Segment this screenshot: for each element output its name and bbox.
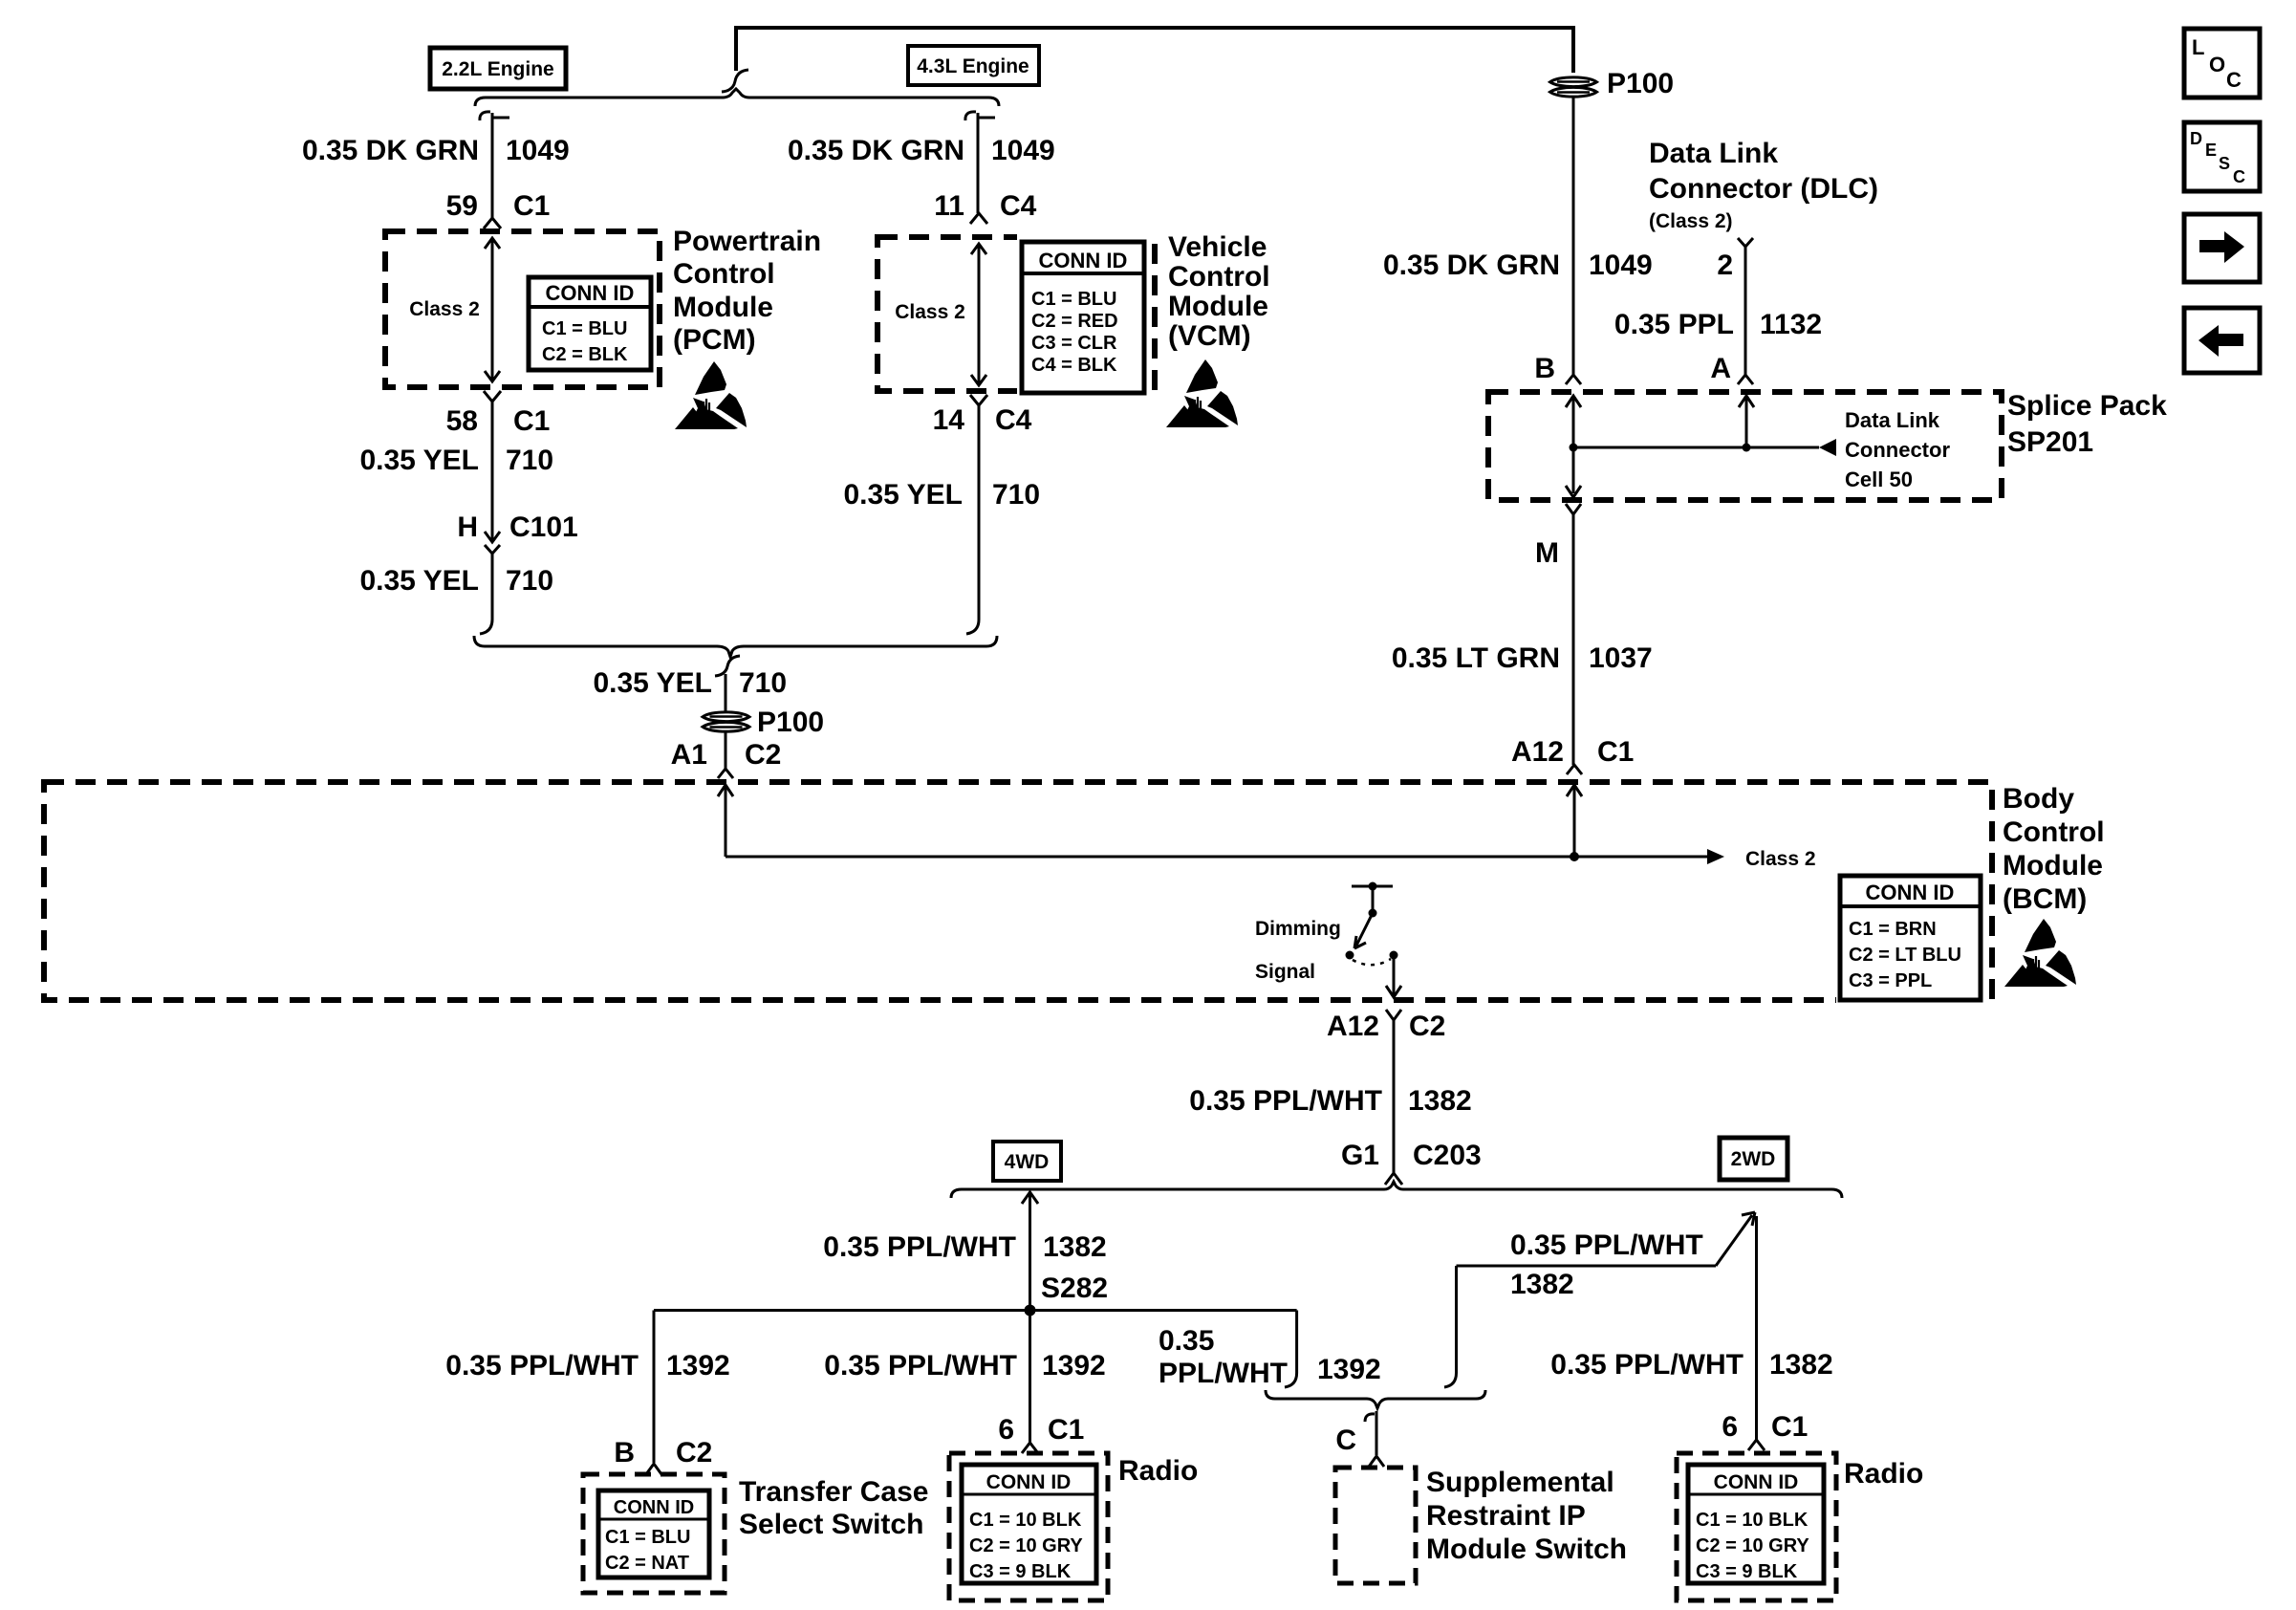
wire: splice horizontal bar <box>1573 446 1819 449</box>
svg-text:Control: Control <box>1168 261 1270 293</box>
svg-text:0.35 PPL/WHT: 0.35 PPL/WHT <box>445 1350 639 1382</box>
svg-text:710: 710 <box>506 445 553 476</box>
connector Y M below splice <box>1566 504 1581 524</box>
connector chevron G1/C203 <box>1385 1167 1402 1185</box>
svg-text:Restraint IP: Restraint IP <box>1426 1500 1586 1532</box>
connector Y A12/C2 below BCM <box>1386 1010 1401 1030</box>
wire: 2WD branch diagonal arrow <box>1457 1212 1756 1266</box>
wire: center branch down to radio 1 <box>1029 1311 1031 1444</box>
svg-text:1392: 1392 <box>1317 1354 1381 1385</box>
svg-text:C2 = LT BLU: C2 = LT BLU <box>1849 945 1961 966</box>
connector chevron 11/C4 <box>970 213 987 224</box>
svg-text:S: S <box>2219 154 2230 173</box>
svg-text:Cell 50: Cell 50 <box>1845 468 1913 491</box>
connector chevron A1/C2 <box>718 769 733 778</box>
connector chevron 6/C1 radio 1 <box>1022 1443 1038 1453</box>
wire: tilde below gathering brace <box>715 656 740 676</box>
wire: 4.3L branch top hook <box>965 112 995 213</box>
wire: left branch down to transfer case <box>653 1311 656 1464</box>
svg-text:Body: Body <box>2003 783 2074 815</box>
svg-text:CONN ID: CONN ID <box>1039 249 1128 272</box>
wire: 4.3L lead end curl <box>966 620 979 634</box>
connector chevron 59/C1 <box>484 218 501 228</box>
svg-text:0.35: 0.35 <box>1159 1325 1214 1357</box>
wire below P100 left <box>725 732 727 769</box>
svg-text:Splice Pack: Splice Pack <box>2007 390 2167 422</box>
wire: class 2 double-arrow inside VCM box <box>971 244 986 385</box>
svg-text:C101: C101 <box>509 511 578 543</box>
svg-text:2WD: 2WD <box>1731 1148 1776 1170</box>
svg-text:0.35 PPL/WHT: 0.35 PPL/WHT <box>1189 1085 1382 1117</box>
wire: splice A arrow up <box>1739 396 1754 447</box>
svg-text:1382: 1382 <box>1510 1269 1574 1300</box>
Radio 2 dashed box <box>1677 1453 1836 1600</box>
svg-text:4WD: 4WD <box>1005 1151 1050 1173</box>
wire: 2.2L lead end curl <box>480 620 492 634</box>
4.3L Engine box <box>908 46 1039 85</box>
svg-text:Module: Module <box>1168 291 1268 322</box>
wire: dimming output arrow through BCM bottom <box>1386 959 1401 997</box>
svg-text:1132: 1132 <box>1760 309 1822 340</box>
CONN ID box PCM <box>529 277 651 370</box>
svg-text:1049: 1049 <box>991 135 1055 166</box>
svg-text:D: D <box>2190 129 2202 148</box>
svg-text:2.2L Engine: 2.2L Engine <box>442 58 553 80</box>
svg-text:0.35 PPL/WHT: 0.35 PPL/WHT <box>1510 1229 1703 1261</box>
svg-text:Supplemental: Supplemental <box>1426 1467 1614 1498</box>
svg-text:Data Link: Data Link <box>1649 138 1778 169</box>
wire: A12/C2 down to G1 <box>1393 1030 1396 1167</box>
4WD box <box>993 1142 1061 1181</box>
arrow reference Data Link Connector Cell 50 <box>1819 439 1836 456</box>
connector chevron A12/C1 <box>1567 765 1582 774</box>
CONN ID box radio 1 <box>962 1465 1096 1583</box>
connector chevron B <box>1566 375 1581 384</box>
svg-text:H: H <box>457 511 478 543</box>
wire: lead down to P100 left <box>725 674 727 712</box>
ESD symbol PCM <box>675 361 747 429</box>
svg-text:1049: 1049 <box>506 135 570 166</box>
svg-text:C2 = RED: C2 = RED <box>1031 311 1118 332</box>
svg-text:C2 = NAT: C2 = NAT <box>605 1553 689 1574</box>
wire: top bus from engine brace to P100 right <box>736 26 1573 73</box>
svg-text:Class 2: Class 2 <box>409 298 480 320</box>
svg-text:C3 = PPL: C3 = PPL <box>1849 970 1932 991</box>
svg-text:Select Switch: Select Switch <box>739 1509 923 1540</box>
svg-text:A12: A12 <box>1511 736 1564 768</box>
svg-text:B: B <box>614 1437 635 1469</box>
svg-text:710: 710 <box>506 565 553 597</box>
wire: right branch down with end curl <box>1285 1311 1297 1388</box>
svg-text:4.3L Engine: 4.3L Engine <box>917 55 1029 77</box>
svg-text:0.35 PPL/WHT: 0.35 PPL/WHT <box>823 1231 1016 1263</box>
svg-text:C1 = 10 BLK: C1 = 10 BLK <box>969 1510 1082 1531</box>
svg-text:E: E <box>2205 141 2217 160</box>
CONN ID box BCM <box>1836 872 1984 1006</box>
connector P100 left symbol <box>703 712 749 731</box>
svg-text:C2 = BLK: C2 = BLK <box>542 344 628 365</box>
svg-text:0.35 DK GRN: 0.35 DK GRN <box>788 135 964 166</box>
2.2L Engine box <box>430 48 566 89</box>
svg-text:Control: Control <box>673 258 775 290</box>
right arrow box <box>2184 214 2260 282</box>
svg-text:Class 2: Class 2 <box>895 301 965 323</box>
arrow Class 2 (right) <box>1707 849 1724 864</box>
CONN ID box VCM <box>1017 231 1150 400</box>
svg-text:11: 11 <box>934 190 964 222</box>
connector chevron 6/C1 radio 2 <box>1748 1440 1765 1450</box>
svg-text:Radio: Radio <box>1844 1458 1923 1490</box>
CONN ID box transfer case <box>598 1490 709 1577</box>
connector C lead (supplemental) <box>1365 1411 1384 1467</box>
svg-text:A12: A12 <box>1327 1011 1379 1042</box>
svg-text:1382: 1382 <box>1769 1349 1833 1381</box>
svg-text:C1: C1 <box>513 405 550 437</box>
junction dot splice right <box>1743 444 1751 452</box>
svg-text:C1 = 10 BLK: C1 = 10 BLK <box>1696 1510 1809 1531</box>
svg-text:C1: C1 <box>1597 736 1634 768</box>
svg-text:C3 = 9 BLK: C3 = 9 BLK <box>1696 1561 1798 1582</box>
svg-text:58: 58 <box>446 405 478 437</box>
svg-text:S282: S282 <box>1041 1273 1108 1304</box>
svg-text:CONN ID: CONN ID <box>546 281 635 305</box>
wire: VCM down lead <box>978 415 981 620</box>
svg-text:Transfer Case: Transfer Case <box>739 1476 928 1508</box>
VCM class 2 dashed box <box>877 237 1155 391</box>
wire: gathering brace below engine leads <box>474 636 997 657</box>
left arrow box <box>2184 308 2260 373</box>
svg-text:M: M <box>1535 537 1559 569</box>
svg-text:(VCM): (VCM) <box>1168 320 1251 352</box>
connector chevron B/C2 <box>646 1464 661 1474</box>
DESC box <box>2184 122 2260 191</box>
connector chevron A <box>1738 375 1753 384</box>
svg-text:0.35 DK GRN: 0.35 DK GRN <box>1383 250 1560 281</box>
svg-text:Signal: Signal <box>1255 961 1315 983</box>
svg-text:1382: 1382 <box>1408 1085 1472 1117</box>
svg-text:Radio: Radio <box>1118 1455 1198 1487</box>
svg-text:P100: P100 <box>757 707 824 738</box>
svg-text:2: 2 <box>1717 250 1733 281</box>
wire: brace over 2.2L/4.3L engine wires <box>475 89 999 106</box>
svg-text:0.35 LT GRN: 0.35 LT GRN <box>1392 642 1560 674</box>
svg-text:CONN ID: CONN ID <box>614 1497 694 1518</box>
svg-text:6: 6 <box>998 1414 1014 1446</box>
svg-text:Control: Control <box>2003 816 2105 848</box>
wire: 2WD feed end curl <box>1444 1266 1457 1387</box>
svg-text:Dimming: Dimming <box>1255 918 1341 940</box>
wire: PCM down lead <box>491 411 494 541</box>
Transfer Case Select Switch dashed box <box>583 1474 725 1593</box>
svg-text:C: C <box>2233 167 2245 186</box>
svg-text:C2 = 10 GRY: C2 = 10 GRY <box>969 1535 1083 1556</box>
svg-text:G1: G1 <box>1341 1140 1379 1171</box>
svg-text:Connector: Connector <box>1845 438 1950 462</box>
svg-text:C3 = 9 BLK: C3 = 9 BLK <box>969 1561 1072 1582</box>
svg-text:(Class 2): (Class 2) <box>1649 210 1733 232</box>
dimming signal switch <box>1352 886 1393 911</box>
wire: 4WD branch arrow up to brace <box>1022 1192 1038 1310</box>
svg-text:1382: 1382 <box>1043 1231 1107 1263</box>
svg-text:1037: 1037 <box>1589 642 1653 674</box>
svg-text:C2: C2 <box>1409 1011 1445 1042</box>
svg-text:CONN ID: CONN ID <box>1866 881 1955 904</box>
Supplemental Restraint dashed box <box>1335 1468 1416 1583</box>
svg-text:A: A <box>1710 353 1731 384</box>
svg-text:Class 2: Class 2 <box>1745 848 1816 870</box>
svg-text:C1 = BRN: C1 = BRN <box>1849 919 1937 940</box>
svg-text:A1: A1 <box>671 739 707 771</box>
svg-text:Module: Module <box>2003 850 2103 881</box>
svg-text:1392: 1392 <box>1042 1350 1106 1382</box>
wire: arrow entering BCM at A12/C1 <box>1567 785 1582 857</box>
svg-text:CONN ID: CONN ID <box>1714 1471 1799 1493</box>
svg-text:59: 59 <box>446 190 478 222</box>
svg-text:B: B <box>1534 353 1555 384</box>
svg-text:0.35 YEL: 0.35 YEL <box>593 667 712 699</box>
wire: supplemental gathering brace <box>1266 1390 1485 1408</box>
svg-text:Module Switch: Module Switch <box>1426 1534 1627 1565</box>
svg-text:Vehicle: Vehicle <box>1168 231 1267 263</box>
svg-text:(PCM): (PCM) <box>673 324 756 356</box>
svg-text:0.35 PPL: 0.35 PPL <box>1614 309 1734 340</box>
connector Y 58/C1 below PCM box <box>484 391 501 411</box>
connector Y DLC pin 2 <box>1738 238 1753 254</box>
connector Y 14/C4 below VCM box <box>970 395 987 415</box>
junction dot on bus <box>1570 852 1579 861</box>
CONN ID box radio 2 <box>1688 1465 1824 1583</box>
svg-text:(BCM): (BCM) <box>2003 883 2087 915</box>
wire: M lead down to BCM <box>1572 524 1575 765</box>
svg-text:0.35 YEL: 0.35 YEL <box>843 479 963 511</box>
connector P100 right symbol <box>1550 77 1597 97</box>
connector C101 inline <box>485 532 500 620</box>
junction dot splice left <box>1570 444 1578 452</box>
Body Control Module dashed box <box>44 782 1992 1000</box>
wire: DLC lead down <box>1744 254 1747 375</box>
svg-text:710: 710 <box>992 479 1040 511</box>
Radio 1 dashed box <box>949 1453 1108 1600</box>
svg-text:C1: C1 <box>513 190 550 222</box>
svg-text:O: O <box>2209 53 2225 76</box>
junction dot S282 <box>1025 1305 1036 1316</box>
ESD symbol VCM <box>1166 359 1238 427</box>
svg-text:C1: C1 <box>1048 1414 1084 1446</box>
svg-text:C1: C1 <box>1771 1411 1808 1443</box>
svg-text:6: 6 <box>1722 1411 1738 1443</box>
wire: 2.2L branch top hook <box>480 112 509 218</box>
svg-text:C: C <box>1335 1425 1356 1456</box>
svg-text:P100: P100 <box>1607 68 1674 99</box>
svg-text:C4: C4 <box>1000 190 1037 222</box>
svg-text:0.35 YEL: 0.35 YEL <box>359 445 479 476</box>
svg-text:14: 14 <box>933 404 965 436</box>
svg-text:C2: C2 <box>745 739 781 771</box>
svg-text:0.35 PPL/WHT: 0.35 PPL/WHT <box>824 1350 1017 1382</box>
ESD symbol BCM <box>2004 919 2076 987</box>
svg-text:Connector (DLC): Connector (DLC) <box>1649 173 1878 205</box>
svg-text:Module: Module <box>673 292 773 323</box>
svg-text:L: L <box>2192 35 2204 59</box>
svg-text:0.35 PPL/WHT: 0.35 PPL/WHT <box>1550 1349 1744 1381</box>
svg-text:0.35 YEL: 0.35 YEL <box>359 565 479 597</box>
wire: splice B arrow up <box>1566 396 1581 447</box>
svg-text:PPL/WHT: PPL/WHT <box>1159 1358 1288 1389</box>
wire: distribution brace 4WD/2WD <box>951 1182 1842 1198</box>
svg-text:C4 = BLK: C4 = BLK <box>1031 355 1117 376</box>
svg-text:C4: C4 <box>995 404 1032 436</box>
svg-text:C203: C203 <box>1413 1140 1482 1171</box>
wire: radio 2 vertical lead <box>1755 1216 1758 1440</box>
svg-text:C3 = CLR: C3 = CLR <box>1031 333 1117 354</box>
svg-text:Data Link: Data Link <box>1845 408 1940 432</box>
Splice Pack SP201 dashed box <box>1488 392 2002 500</box>
wire: class 2 bus inside BCM <box>726 856 1718 859</box>
svg-text:C2: C2 <box>676 1437 712 1469</box>
wire: main vertical to splice pack <box>1572 98 1575 375</box>
wire: break tilde above engine brace <box>722 70 748 92</box>
svg-text:CONN ID: CONN ID <box>986 1471 1072 1493</box>
LOC box <box>2184 29 2260 98</box>
svg-text:C2 = 10 GRY: C2 = 10 GRY <box>1696 1535 1809 1556</box>
wire: S282 horizontal bus <box>654 1309 1297 1312</box>
svg-text:C1 = BLU: C1 = BLU <box>542 318 627 339</box>
svg-text:710: 710 <box>739 667 787 699</box>
PCM class 2 dashed box <box>385 231 660 387</box>
wire: arrow entering BCM at A1/C2 <box>718 785 733 857</box>
svg-text:1049: 1049 <box>1589 250 1653 281</box>
svg-text:C1 = BLU: C1 = BLU <box>605 1527 690 1548</box>
wire: splice M arrow down <box>1566 447 1581 497</box>
svg-text:Powertrain: Powertrain <box>673 226 821 257</box>
svg-text:1392: 1392 <box>666 1350 730 1382</box>
svg-text:0.35 DK GRN: 0.35 DK GRN <box>302 135 479 166</box>
svg-text:C: C <box>2226 68 2242 92</box>
svg-text:SP201: SP201 <box>2007 426 2093 458</box>
svg-text:C1 = BLU: C1 = BLU <box>1031 289 1116 310</box>
wire: class 2 double-arrow inside PCM box <box>485 238 500 381</box>
2WD box <box>1720 1138 1787 1180</box>
